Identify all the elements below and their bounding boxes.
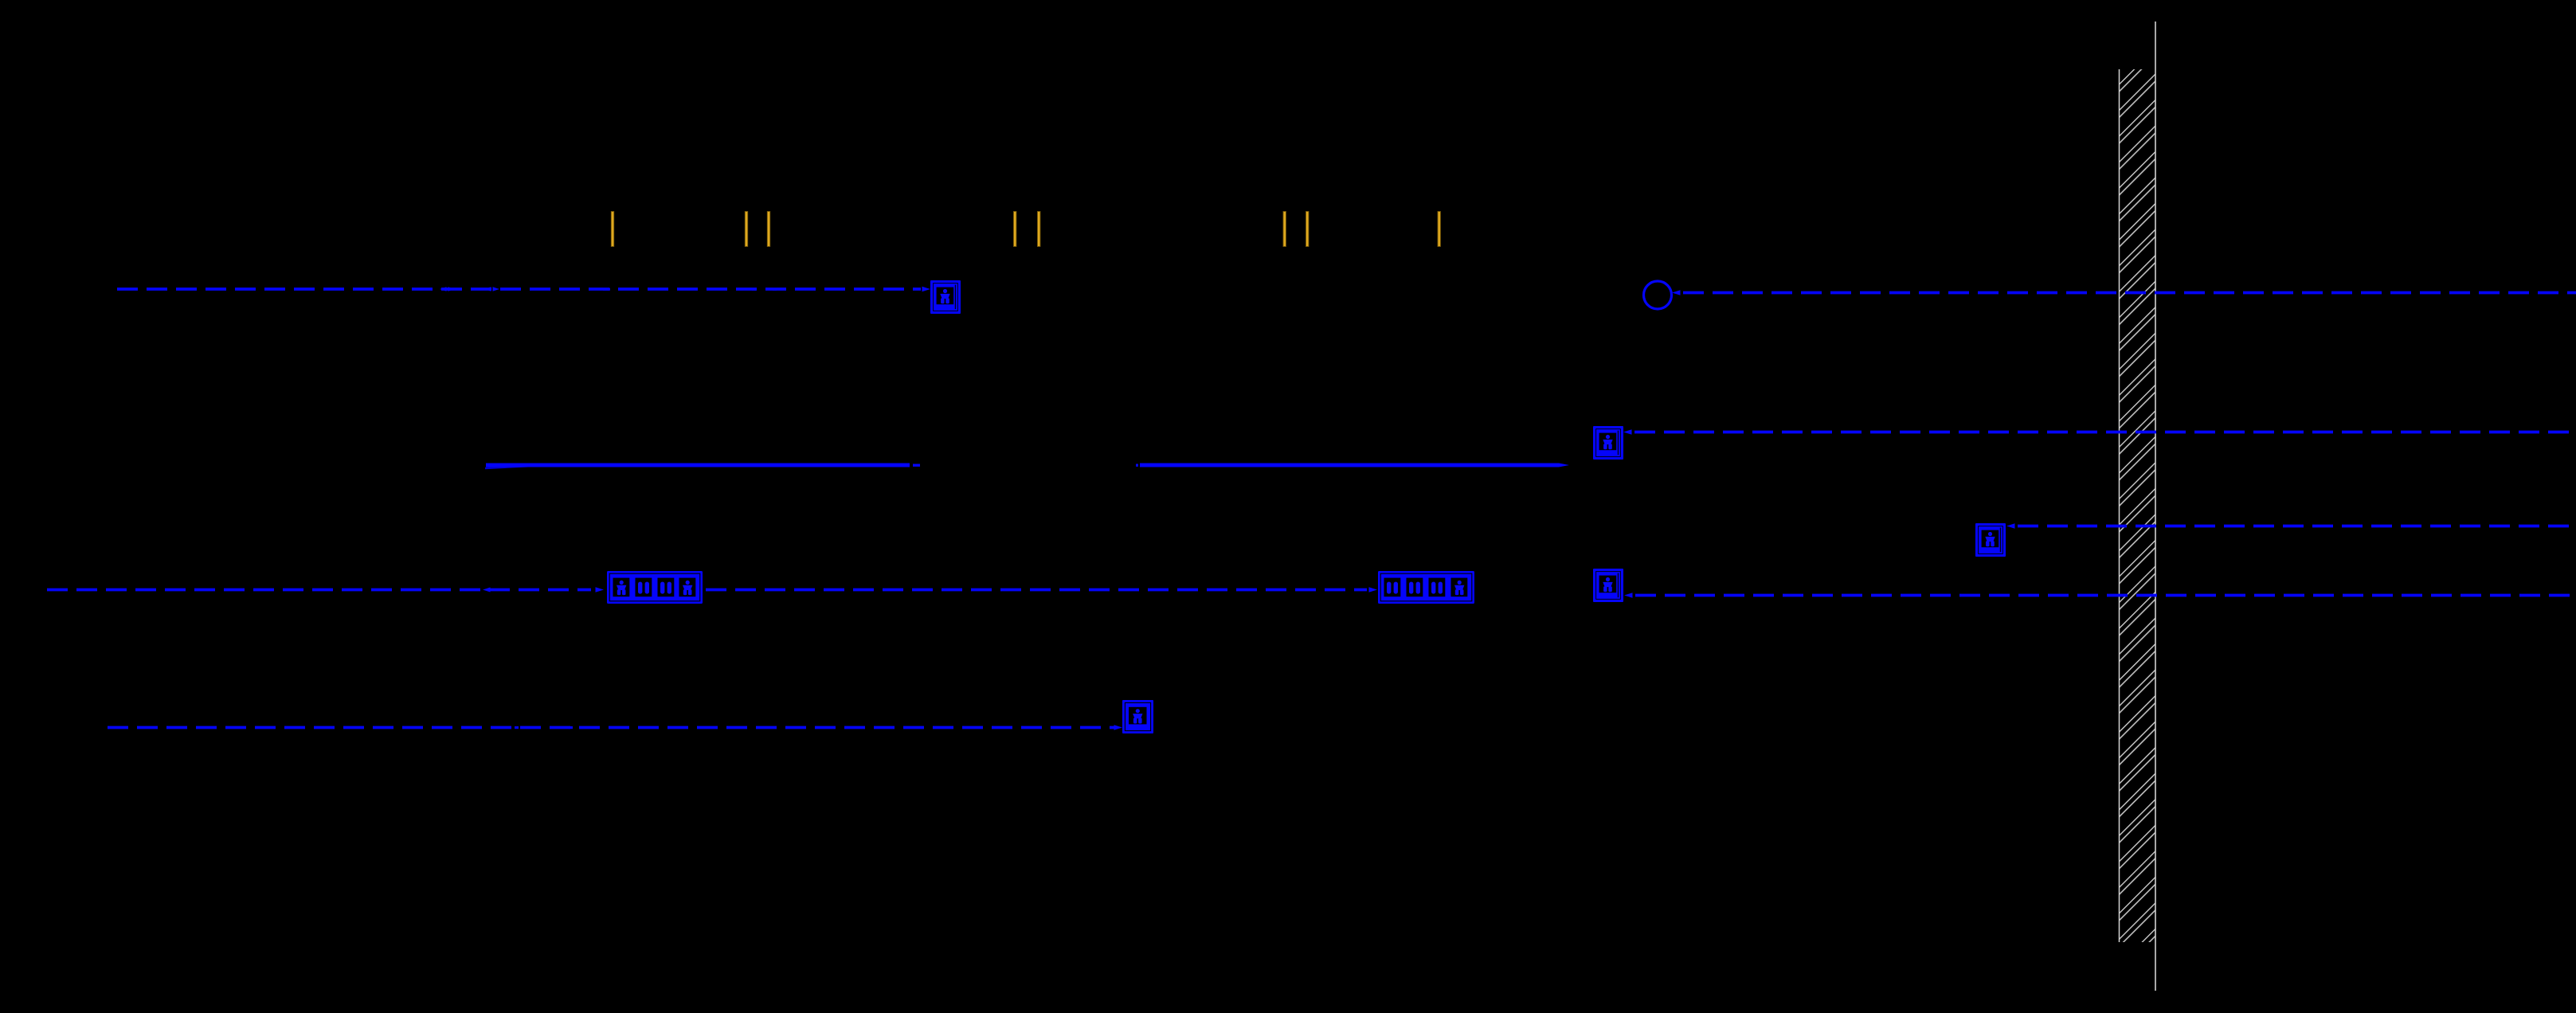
leader line F dashed (108, 726, 1115, 729)
exit sign box E (1593, 569, 1623, 602)
leader line D arrowhead (2006, 523, 2015, 529)
wall hatch (vertical wall section at right) (2120, 69, 2155, 942)
exit sign box D (1975, 523, 2006, 557)
leader line E right dashed (1635, 594, 2576, 597)
leader line A mid double-arrow (440, 287, 455, 291)
wall right edge line (extends above and below) (2155, 22, 2156, 991)
circle node (1644, 281, 1672, 309)
leader line A arrowhead (922, 287, 931, 292)
leader line A small dots (603, 288, 610, 291)
leader line D dashed (2018, 525, 2576, 528)
exit sign box C (1593, 426, 1623, 460)
leader line A second mid double-arrow (484, 287, 499, 291)
leader line E arrowhead into block 1 (596, 587, 605, 593)
column tick 3 (767, 212, 769, 247)
leader line A dashed (117, 287, 921, 291)
leader line F arrowhead (1114, 725, 1123, 730)
leader line F small dots (515, 726, 519, 729)
column tick 2 (745, 212, 747, 247)
column tick 5 (1038, 212, 1040, 247)
column tick 6 (1283, 212, 1286, 247)
leader line E mid arrow (483, 588, 491, 593)
leader line E middle dashed (706, 589, 1367, 592)
leader line C dashed (1634, 431, 2576, 434)
column tick 4 (1014, 212, 1016, 247)
solid conduit line 2 (1140, 463, 1559, 467)
column tick 8 (1438, 212, 1440, 247)
leader line E left dashed (47, 589, 591, 592)
column tick 1 (611, 212, 613, 247)
leader line E arrowhead into block 2 (1369, 587, 1378, 593)
solid conduit line 1 start hook (485, 466, 532, 468)
exit sign box F (1122, 700, 1153, 733)
exit sign box A (930, 280, 961, 314)
column tick 7 (1306, 212, 1309, 247)
leader line B dashed (1683, 291, 2576, 295)
solid conduit line 2 arrow end (1559, 463, 1569, 467)
wall left edge line (2119, 69, 2120, 942)
solid conduit line 1 (486, 463, 910, 467)
solid conduit line 1 end dot (913, 464, 920, 467)
leader line B arrowhead at circle (1672, 290, 1681, 295)
leader line C arrowhead (1623, 429, 1632, 435)
solid conduit line 2 start dot (1136, 464, 1138, 467)
exit sign block 1 (607, 571, 703, 604)
exit sign block 2 (1378, 571, 1474, 604)
leader line E right arrowhead (1624, 593, 1633, 598)
